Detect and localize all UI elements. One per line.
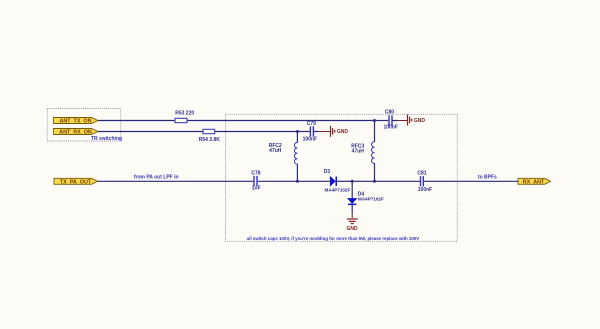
wire node A to C79 bbox=[297, 131, 309, 133]
capacitor C79 bbox=[303, 121, 319, 142]
capacitor C78 bbox=[251, 171, 260, 192]
node D junction bbox=[373, 180, 376, 183]
svg-text:MA4P7102F: MA4P7102F bbox=[325, 188, 351, 193]
wire node E down to D4 anode bbox=[351, 181, 353, 198]
svg-text:RX_ANT: RX_ANT bbox=[523, 179, 545, 185]
node E junction bbox=[351, 180, 354, 183]
wire TX_PA_OUT to C78 bbox=[98, 180, 254, 182]
wire node B down to RFC3 bbox=[374, 121, 376, 143]
ground GND at C80 bbox=[398, 115, 426, 126]
svg-text:D3: D3 bbox=[324, 169, 331, 175]
node A junction bbox=[296, 130, 299, 133]
svg-text:TX_PA_OUT: TX_PA_OUT bbox=[60, 179, 92, 185]
svg-text:all switch caps 100V, if you'r: all switch caps 100V, if you're modding … bbox=[247, 236, 419, 241]
ground GND at D4 bbox=[347, 214, 359, 232]
port TX_PA_OUT bbox=[54, 178, 98, 185]
svg-text:R53 220: R53 220 bbox=[175, 110, 194, 116]
svg-text:C80: C80 bbox=[385, 110, 394, 116]
svg-text:100nF: 100nF bbox=[418, 187, 432, 193]
port ANT_RX_ON bbox=[54, 129, 99, 136]
svg-text:from PA out LPF in: from PA out LPF in bbox=[134, 175, 179, 181]
wire D4 cathode to GND lead bbox=[351, 205, 353, 213]
ground GND at C79 bbox=[319, 126, 349, 137]
resistor R54 bbox=[199, 129, 221, 143]
wire C78 to node C bbox=[258, 180, 298, 182]
svg-text:TR switching: TR switching bbox=[91, 136, 122, 142]
inductor RFC3 bbox=[351, 142, 374, 164]
svg-text:GND: GND bbox=[337, 129, 349, 135]
wire C81 to RX_ANT bbox=[424, 180, 518, 182]
diode D4 bbox=[348, 192, 384, 206]
svg-text:100nF: 100nF bbox=[383, 125, 397, 131]
svg-text:to BPFs: to BPFs bbox=[478, 175, 497, 181]
wire node E to node D bbox=[352, 180, 374, 182]
wire RFC3 to node D bbox=[374, 163, 376, 181]
port RX_ANT bbox=[518, 178, 551, 185]
svg-text:GND: GND bbox=[414, 118, 426, 124]
svg-text:C79: C79 bbox=[307, 121, 316, 127]
svg-text:47uH: 47uH bbox=[352, 148, 365, 154]
wire node D to C81 bbox=[375, 180, 420, 182]
wire node C to D3 anode bbox=[297, 180, 330, 182]
svg-text:C78: C78 bbox=[251, 171, 260, 177]
wire D3 cathode to node E bbox=[337, 180, 352, 182]
dashed group box note: all switch caps 100V bbox=[226, 114, 458, 241]
wire ANT_TX_ON to R53 bbox=[98, 120, 175, 122]
svg-text:100nF: 100nF bbox=[303, 136, 317, 142]
svg-text:ANT_TX_ON: ANT_TX_ON bbox=[59, 118, 91, 124]
dashed group box "TR switching" bbox=[47, 109, 122, 142]
capacitor C80 bbox=[383, 110, 397, 131]
inductor RFC2 bbox=[269, 143, 298, 165]
svg-text:ANT_RX_ON: ANT_RX_ON bbox=[59, 129, 92, 135]
svg-text:R54 3.8K: R54 3.8K bbox=[199, 137, 221, 143]
svg-text:47uH: 47uH bbox=[269, 148, 282, 154]
wire node B to C80 bbox=[375, 120, 389, 122]
svg-text:C81: C81 bbox=[417, 170, 426, 176]
wire R54 to node A bbox=[215, 131, 298, 133]
wire node A down to RFC2 bbox=[296, 132, 298, 143]
node B junction bbox=[373, 119, 376, 122]
wire R53 to node B bbox=[187, 120, 375, 122]
svg-text:MA4P7102F: MA4P7102F bbox=[358, 197, 384, 202]
port ANT_TX_ON bbox=[54, 118, 99, 125]
diode D3 bbox=[324, 169, 351, 192]
capacitor C81 bbox=[417, 170, 432, 193]
resistor R53 bbox=[175, 110, 194, 122]
wire RFC2 to node C bbox=[296, 164, 298, 181]
node C junction bbox=[296, 180, 299, 183]
svg-text:GND: GND bbox=[347, 226, 359, 232]
svg-text:1nF: 1nF bbox=[252, 186, 261, 192]
wire ANT_RX_ON to R54 bbox=[98, 131, 203, 133]
